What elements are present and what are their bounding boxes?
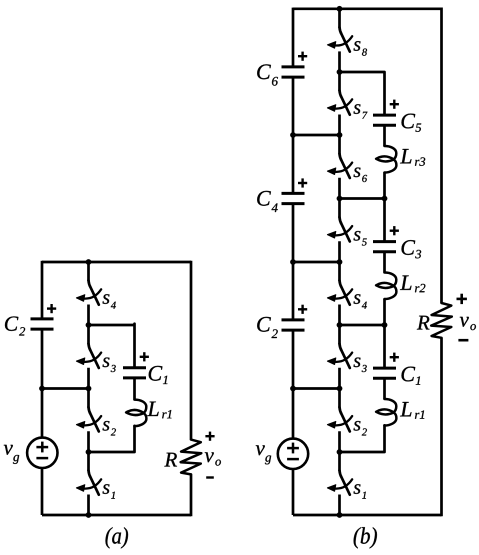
inductor Lr1 (a) <box>126 400 146 427</box>
node left rail row s5-s4 (b) <box>290 259 296 265</box>
label s1 (a) <box>103 484 110 494</box>
wire C1 branch upper (b) <box>383 325 386 368</box>
polarity + of C2 (a) <box>47 304 56 313</box>
wire switch s3 lower lead (b) <box>338 368 341 389</box>
label s5 (b) <box>354 231 361 241</box>
capacitor C2 (a) <box>31 319 54 329</box>
polarity + of vo (a) <box>205 432 214 441</box>
wire Lr1 to s2-s1 node (b) <box>340 425 385 452</box>
switch s5 (b) <box>327 217 352 241</box>
polarity - of vo (a) <box>206 476 214 478</box>
wire Lr2 lower lead (b) <box>383 299 386 325</box>
node left rail row s7-s6 (b) <box>290 132 296 138</box>
wire right rail upper (a) <box>190 261 193 440</box>
node row 2 (a) <box>86 386 92 392</box>
wire switch s3 lower lead (a) <box>87 368 90 389</box>
wire C3 to Lr2 (b) <box>383 252 386 273</box>
label R (b) <box>417 316 430 330</box>
switch s4 (b) <box>327 281 352 305</box>
node row 1 (b) <box>337 69 343 75</box>
label Lr2 (b) <box>400 275 411 289</box>
capacitor C6 (b) <box>282 67 305 77</box>
node branch row top C3 (b) <box>382 196 388 202</box>
inductor Lr2 (b) <box>376 273 396 300</box>
polarity + of C1 (b) <box>390 353 399 362</box>
wire left rail seg C4-C2 (b) <box>292 205 295 319</box>
wire left rail upper segment (a) <box>41 261 44 318</box>
label C6 (b) <box>257 64 271 79</box>
caption (a) <box>106 527 128 548</box>
label s4 (b) <box>354 294 361 304</box>
wire right rail lower (b) <box>440 338 443 516</box>
switch s8 (b) <box>327 27 352 51</box>
label C3 (b) <box>402 240 416 255</box>
capacitor C3 (b) <box>373 242 396 252</box>
switch s1 (b) <box>327 471 352 495</box>
node bottom of switch column (a) <box>86 512 92 518</box>
wire row s3-s2 to left rail (a) <box>42 387 89 390</box>
label Lr1 (a) <box>147 402 158 416</box>
wire switch s5 lower lead (b) <box>338 241 341 262</box>
node row 3 (a) <box>86 322 92 328</box>
node top of switch column (a) <box>86 259 92 265</box>
wire switch s5 upper lead (b) <box>338 199 341 218</box>
wire switch s1 upper lead (a) <box>87 452 90 471</box>
wire row s7-s6 (b) <box>293 134 340 137</box>
label s3 (b) <box>354 358 361 368</box>
node top of switch column (b) <box>337 6 343 12</box>
wire left rail seg C6-C4 (b) <box>292 79 295 193</box>
wire switch s3 upper lead (b) <box>338 325 341 344</box>
polarity + of C5 (b) <box>390 100 399 109</box>
wire switch s6 lower lead (b) <box>338 178 341 199</box>
wire C5 to Lr3 (b) <box>383 125 386 146</box>
inductor Lr1 (b) <box>376 399 396 426</box>
node left rail row s3-s2 (b) <box>290 386 296 392</box>
polarity + of C6 (b) <box>298 52 307 61</box>
wire C1 branch upper (a) <box>133 324 136 368</box>
wire switch s2 upper lead (b) <box>338 389 341 408</box>
label R (a) <box>164 453 177 467</box>
switch s3 (b) <box>327 344 352 368</box>
polarity - of vo (b) <box>458 339 468 342</box>
wire switch s6 upper lead (b) <box>338 135 341 154</box>
label s2 (a) <box>103 421 110 431</box>
wire C1 to Lr1 (a) <box>133 378 136 400</box>
resistor R (b) <box>431 303 452 338</box>
wire row to C1 branch (b) <box>340 324 385 327</box>
label vg (b) <box>256 445 265 455</box>
label C1 (b) <box>402 367 416 382</box>
wire row to C3 branch (b) <box>340 197 385 200</box>
wire switch s1 upper lead (b) <box>338 452 341 471</box>
label s2 (b) <box>354 421 361 431</box>
switch s2 (b) <box>327 407 352 431</box>
wire top rail (b) <box>293 7 442 10</box>
wire switch s2 lower lead (a) <box>87 431 90 452</box>
node row 6 (b) <box>337 386 343 392</box>
wire left rail top segment (b) <box>292 8 295 66</box>
capacitor C1 (a) <box>123 368 146 378</box>
label s1 (b) <box>354 484 361 494</box>
wire switch s1 lower lead (a) <box>87 495 90 516</box>
resistor R (a) <box>181 440 202 475</box>
node branch row top C1 (b) <box>382 322 388 328</box>
label vg (a) <box>4 445 13 455</box>
label Lr1 (b) <box>400 402 411 416</box>
wire switch s4 upper lead (a) <box>87 262 90 281</box>
polarity + of C3 (b) <box>390 226 399 235</box>
wire switch s4 upper lead (b) <box>338 262 341 281</box>
label vo (a) <box>205 452 214 462</box>
label C1 (a) <box>149 366 163 381</box>
node row 5 (b) <box>337 322 343 328</box>
wire switch s4 lower lead (b) <box>338 305 341 326</box>
node bottom of switch column (b) <box>337 512 343 518</box>
wire switch s4 lower lead (a) <box>87 305 90 326</box>
wire bottom rail (b) <box>293 514 442 517</box>
wire s4-s3 node to C1 branch (a) <box>89 324 135 327</box>
label s8 (b) <box>354 41 361 51</box>
node row 1 (a) <box>86 449 92 455</box>
wire switch s2 upper lead (a) <box>87 389 90 408</box>
label s6 (b) <box>354 168 361 178</box>
polarity + of C1 (a) <box>140 352 149 361</box>
voltage source vg (a) <box>27 438 57 468</box>
switch s3 (a) <box>76 344 101 368</box>
wire C3 branch upper (b) <box>383 199 386 242</box>
wire right rail lower (a) <box>190 474 193 516</box>
capacitor C1 (b) <box>373 368 396 378</box>
wire right rail upper (b) <box>440 8 443 303</box>
node row 3 (b) <box>337 196 343 202</box>
caption (b) <box>354 527 377 548</box>
wire left rail lower segment (a) <box>41 468 44 515</box>
wire left rail lower segment (b) <box>292 469 295 515</box>
wire left rail seg C2-vg (b) <box>292 332 295 439</box>
node row 7 (b) <box>337 449 343 455</box>
wire row s5-s4 (b) <box>293 261 340 264</box>
node C2 to s3-s2 row (a) <box>39 386 45 392</box>
wire row s3-s2 (b) <box>293 387 340 390</box>
label s3 (a) <box>103 358 110 368</box>
label vo (b) <box>460 317 469 327</box>
polarity + of vo (b) <box>457 294 467 304</box>
wire switch s8 lower lead (b) <box>338 51 341 72</box>
wire switch s7 lower lead (b) <box>338 115 341 136</box>
voltage source vg (b) <box>278 439 308 469</box>
wire switch s1 lower lead (b) <box>338 495 341 516</box>
wire top rail (a) <box>42 261 191 264</box>
switch s4 (a) <box>76 281 101 305</box>
inductor Lr3 (b) <box>376 146 396 173</box>
switch s2 (a) <box>76 407 101 431</box>
wire switch s8 upper lead (b) <box>338 9 341 28</box>
capacitor C2 (b) <box>282 320 305 330</box>
label C2 (b) <box>257 317 271 332</box>
wire Lr3 lower lead (b) <box>383 172 386 198</box>
node row 4 (b) <box>337 259 343 265</box>
wire left rail mid segment (a) <box>41 331 44 438</box>
wire switch s3 upper lead (a) <box>87 325 90 344</box>
wire switch s2 lower lead (b) <box>338 431 341 452</box>
label s7 (b) <box>354 104 361 114</box>
switch s1 (a) <box>76 471 101 495</box>
label C4 (b) <box>257 191 271 206</box>
polarity + of C4 (b) <box>298 178 307 187</box>
capacitor C4 (b) <box>282 193 305 203</box>
wire C1 to Lr1 (b) <box>383 378 386 399</box>
wire Lr1 to s2-s1 node (a) <box>89 426 135 452</box>
label Lr3 (b) <box>400 149 411 163</box>
switch s7 (b) <box>327 91 352 115</box>
label C2 (a) <box>5 316 18 330</box>
polarity + of C2 (b) <box>298 305 307 314</box>
wire s8-s7 node to C5 branch (b) <box>340 72 385 115</box>
capacitor C5 (b) <box>373 115 396 125</box>
wire bottom rail (a) <box>42 514 191 517</box>
label s4 (a) <box>103 294 110 304</box>
switch s6 (b) <box>327 154 352 178</box>
label C5 (b) <box>402 114 416 129</box>
node row 2 (b) <box>337 132 343 138</box>
wire switch s7 upper lead (b) <box>338 72 341 91</box>
